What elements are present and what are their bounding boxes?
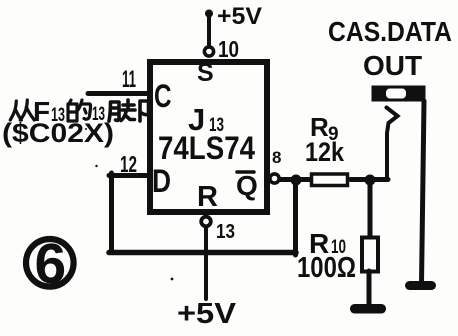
wire: jack tip contact to node [387,108,398,181]
Q-bar output bubble (pin 8) [270,174,279,183]
wire: +5V to S pin [207,14,211,47]
svg-text:12k: 12k [305,137,345,167]
svg-text:10: 10 [218,36,239,62]
svg-text:D: D [152,163,171,199]
ground (jack sleeve) [405,281,436,290]
wire: R10 to ground [367,271,372,305]
svg-text:OUT: OUT [363,50,422,81]
set pin 10 bubble [204,47,213,56]
wire: feedback bottom horizontal [109,250,296,256]
wire: feedback right vertical [293,178,298,255]
svg-text:74LS74: 74LS74 [158,130,255,166]
svg-text:C: C [154,78,172,114]
cassette jack body [372,86,426,102]
wire: node to R10 [368,180,373,238]
junction node: Q-bar / feedback [291,175,302,186]
wire: clock input from F13 (pin 11) [88,91,150,96]
wire: Q-bar output to R9 [280,177,312,182]
wire: jack sleeve to ground [422,101,425,284]
flip-flop J13 74LS74 body [150,62,267,212]
label: 从F13的13脚 (from pin 13 of F13) [10,96,148,127]
svg-text:100Ω: 100Ω [297,252,356,284]
svg-text:12: 12 [120,151,137,177]
svg-text:8: 8 [272,148,281,167]
svg-text:11: 11 [122,66,136,93]
svg-text:Q: Q [236,170,258,201]
resistor R9 [312,174,348,186]
figure number 6 [26,239,74,287]
speck noise [95,165,97,167]
ground (below R10) [350,304,386,314]
svg-text:13: 13 [216,221,235,243]
svg-text:+5V: +5V [177,298,237,330]
resistor R10 [362,238,378,272]
wire: +5V to R pin [204,228,208,300]
junction node: R9 / R10 / jack [365,175,376,186]
svg-text:S: S [197,59,214,87]
svg-text:($C02X): ($C02X) [2,118,114,148]
wire: D input (pin 12) [109,173,150,178]
wire: R9 to output node [351,177,389,182]
reset pin 13 bubble [201,217,211,227]
svg-text:+5V: +5V [217,3,262,30]
svg-text:6: 6 [35,232,67,296]
svg-text:CAS.DATA: CAS.DATA [328,16,452,47]
svg-text:R: R [197,181,218,213]
wire: feedback left vertical [109,173,114,253]
